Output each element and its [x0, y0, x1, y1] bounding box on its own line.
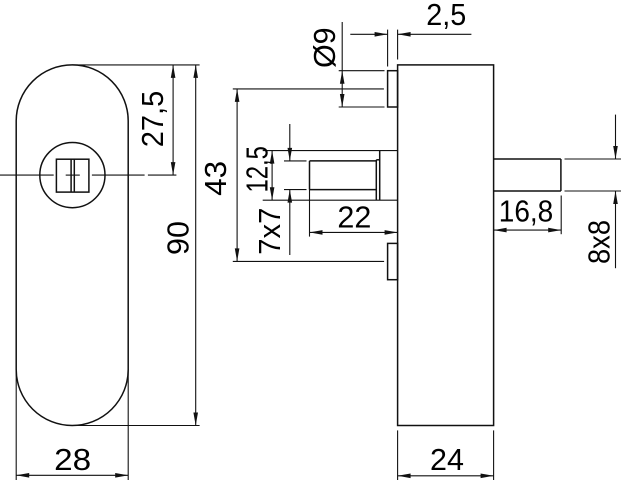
- arrowhead 7x7 top: [288, 148, 293, 161]
- svg-text:28: 28: [54, 443, 91, 477]
- arrowhead 7x7 bottom: [288, 190, 293, 203]
- extension line 24 right: [493, 430, 495, 480]
- arrowhead 8x8 top: [613, 146, 618, 159]
- centerline bottom screw axis: [233, 260, 384, 262]
- dimension line 90: [195, 65, 197, 426]
- collar top step: [376, 159, 379, 161]
- svg-text:16,8: 16,8: [499, 194, 554, 228]
- right shaft bottom edge: [494, 190, 561, 192]
- flange top edge + 12,5 extension: [263, 150, 398, 152]
- arrowhead Ø9 top: [340, 71, 345, 84]
- spindle bottom edge: [310, 189, 377, 191]
- arrowhead 24 left: [398, 474, 411, 479]
- extension dash 7x7 bottom: [284, 189, 307, 191]
- centerline segment 2 (center dash): [66, 174, 80, 176]
- dimension line 28: [16, 474, 128, 476]
- dimension tail 2,5 right: [398, 33, 472, 35]
- bottom extension line from rosette bottom apex: [74, 425, 200, 427]
- extension dash 7x7 top: [284, 160, 307, 162]
- extension dash Ø9 top: [339, 70, 385, 72]
- flange bottom edge + 12,5 extension: [263, 199, 398, 201]
- extension line 24 left: [397, 430, 399, 480]
- extension dash for 27,5 at hole axis: [148, 174, 177, 176]
- dimension line 27,5: [172, 65, 174, 175]
- collar left face: [375, 160, 377, 200]
- right shaft end face: [560, 159, 562, 191]
- screw boss top (Ø9): [388, 71, 398, 107]
- arrowhead 16,8 left: [494, 228, 507, 233]
- arrowhead 12,5 bottom: [270, 187, 275, 200]
- spindle hole circle: [40, 143, 105, 208]
- arrowhead 90 bottom: [193, 413, 198, 426]
- dimension line 43: [236, 89, 238, 262]
- svg-text:24: 24: [430, 443, 464, 477]
- rosette outline (stadium 28x90 front view): [16, 65, 128, 426]
- arrowhead 90 top: [193, 65, 198, 78]
- svg-text:27,5: 27,5: [136, 91, 170, 148]
- arrowhead Ø9 bottom: [340, 94, 345, 107]
- arrowhead 2,5 right: [398, 32, 411, 37]
- extension line right edge of rosette down to 28-dim: [127, 369, 129, 480]
- svg-text:2,5: 2,5: [426, 0, 466, 32]
- arrowhead 12,5 top: [270, 151, 275, 164]
- handle body side view 24x90: [398, 65, 494, 426]
- screw boss bottom: [388, 243, 398, 279]
- extension line left edge of rosette down to 28-dim: [15, 369, 17, 480]
- arrowhead 2,5 left: [375, 32, 388, 37]
- slot line right inside square: [73, 159, 75, 192]
- arrow shaft 7x7 top: [289, 124, 291, 161]
- arrowhead 27,5 top: [171, 65, 176, 78]
- extension line 16,8 at shaft end: [560, 196, 562, 235]
- arrow shaft 8x8 top: [615, 115, 617, 159]
- dimension tail 2,5 left: [350, 33, 387, 35]
- svg-text:8x8: 8x8: [583, 220, 617, 264]
- dimension line 12,5: [271, 151, 273, 201]
- extension dash 8x8 bottom: [565, 190, 621, 192]
- arrowhead 28 right: [115, 473, 128, 478]
- spindle top edge: [310, 160, 377, 162]
- flange left face: [379, 151, 381, 201]
- extension line 2,5 right: [397, 30, 399, 60]
- arrowhead 16,8 right: [548, 228, 561, 233]
- extension dash 8x8 top: [565, 158, 621, 160]
- centerline segment 3: [92, 174, 145, 176]
- spindle end face: [309, 161, 311, 190]
- extension line 22 at spindle end: [309, 190, 311, 237]
- extension dash Ø9 bottom: [339, 106, 385, 108]
- arrowhead 43 top: [235, 89, 240, 102]
- svg-text:22: 22: [337, 201, 371, 235]
- arrowhead 22 left: [310, 230, 323, 235]
- centerline segment 1 (horizontal axis): [0, 174, 54, 176]
- arrow shaft 8x8 bottom: [615, 191, 617, 268]
- svg-text:90: 90: [162, 221, 196, 255]
- arrowhead 43 bottom: [235, 248, 240, 261]
- arrowhead 27,5 bottom: [171, 162, 176, 175]
- right shaft top edge: [494, 158, 561, 160]
- arrowhead 28 left: [16, 473, 29, 478]
- square hole 8x8: [56, 159, 89, 192]
- centerline top screw axis: [233, 88, 384, 90]
- top extension line from rosette apex: [72, 64, 199, 66]
- extension line 2,5 left: [387, 30, 389, 67]
- arrowhead 24 right: [481, 474, 494, 479]
- dimension line Ø9: [341, 22, 343, 107]
- slot line left inside square: [70, 159, 72, 192]
- svg-text:Ø9: Ø9: [308, 27, 342, 68]
- dimension line 22: [310, 231, 398, 233]
- svg-text:7x7: 7x7: [253, 208, 287, 255]
- dimension line 16,8: [494, 229, 562, 231]
- svg-text:12,5: 12,5: [241, 146, 275, 193]
- svg-text:43: 43: [199, 161, 233, 196]
- arrow shaft 7x7 bottom: [289, 190, 291, 255]
- arrowhead 22 right: [385, 230, 398, 235]
- arrowhead 8x8 bottom: [613, 191, 618, 204]
- dimension line 24: [398, 475, 494, 477]
